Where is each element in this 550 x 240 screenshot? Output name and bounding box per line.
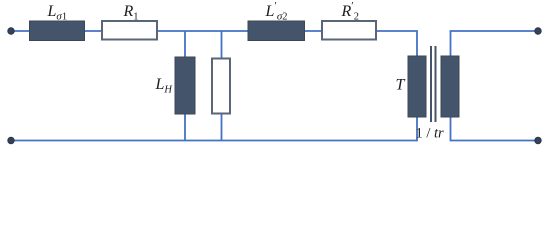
wire: secondary top lead to right terminal <box>451 31 539 60</box>
transformer T primary winding <box>408 56 426 117</box>
svg-text:1 / tr: 1 / tr <box>416 126 445 142</box>
resistor R'2 <box>322 21 376 40</box>
inductor L_H <box>175 57 195 114</box>
svg-text:LH: LH <box>155 76 174 96</box>
terminal dot bottom-left <box>8 137 14 143</box>
terminal dot bottom-right <box>535 137 541 143</box>
wire: primary bottom rail from left terminal to transformer primary <box>11 114 417 141</box>
transformer core line left <box>430 46 432 122</box>
transformer core line right <box>435 46 437 122</box>
svg-text:L′σ2: L′σ2 <box>265 0 288 23</box>
terminal dot top-right <box>535 28 541 34</box>
resistor R_Fe (iron loss, unlabeled) <box>212 59 230 114</box>
svg-text:Lσ1: Lσ1 <box>47 3 68 23</box>
svg-text:R′2: R′2 <box>341 0 359 23</box>
wire: secondary bottom lead to right terminal <box>451 114 539 141</box>
svg-text:R1: R1 <box>123 3 139 23</box>
terminal dot top-left <box>8 28 14 34</box>
resistor R1 <box>102 21 157 40</box>
inductor L_sigma1 <box>30 21 85 41</box>
transformer T secondary winding <box>441 56 459 117</box>
wire: magnetizing branch vertical (L_H) <box>184 31 186 141</box>
wire: iron-loss branch vertical <box>221 31 223 141</box>
inductor L'_sigma2 <box>248 21 305 41</box>
wire: primary top rail from left terminal to transformer primary <box>11 31 417 60</box>
svg-text:T: T <box>396 77 406 94</box>
